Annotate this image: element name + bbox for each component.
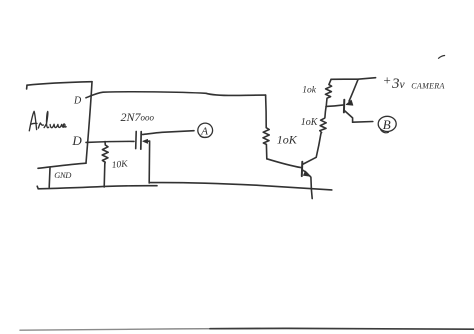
paper bottom edge line xyxy=(20,328,260,330)
svg-text:CAMERA: CAMERA xyxy=(411,82,444,91)
svg-text:1ok: 1ok xyxy=(302,85,317,95)
svg-text:1oK: 1oK xyxy=(301,117,319,128)
svg-text:GND: GND xyxy=(54,170,72,180)
stray pen mark above Camera xyxy=(439,56,445,59)
resistor R3 10K (collector to node) xyxy=(319,106,326,145)
pin GND tab xyxy=(48,168,51,187)
node B circle xyxy=(378,116,396,133)
svg-text:+: + xyxy=(383,73,392,88)
ground rail wire (right segment) xyxy=(150,183,332,190)
wire: R2 to Q2 base xyxy=(267,159,301,168)
label +3v Camera xyxy=(383,73,445,92)
wire: bottom D pin to Q1 gate xyxy=(86,141,134,142)
svg-text:2N7ooo: 2N7ooo xyxy=(121,110,155,124)
node A circle xyxy=(198,123,213,138)
svg-text:D: D xyxy=(73,95,82,106)
svg-text:D: D xyxy=(71,133,82,148)
resistor R2 10K (base feed from top wire) xyxy=(263,95,269,159)
wire: Q3 collector to node B xyxy=(353,121,373,124)
resistor R4 10K (top, to +3v rail) xyxy=(325,79,331,106)
resistor R1 10K (gate pulldown) xyxy=(102,142,108,164)
wire: node to Q3 base xyxy=(326,105,344,107)
wire: +3v rail xyxy=(331,78,376,80)
label Arduino xyxy=(29,111,66,131)
transistor Q2 NPN xyxy=(302,145,319,198)
transistor Q3 PNP xyxy=(344,79,358,122)
svg-text:B: B xyxy=(383,117,391,132)
svg-text:10K: 10K xyxy=(111,159,128,171)
wire: top D pin to R2 (long top wire) xyxy=(86,92,266,98)
svg-text:1oK: 1oK xyxy=(277,133,298,147)
transistor Q1 2N7000 xyxy=(136,131,194,183)
svg-text:3v: 3v xyxy=(391,76,406,92)
Arduino module U1 box xyxy=(27,82,92,169)
ground rail wire (left segment) xyxy=(37,186,157,189)
svg-text:A: A xyxy=(200,126,208,138)
